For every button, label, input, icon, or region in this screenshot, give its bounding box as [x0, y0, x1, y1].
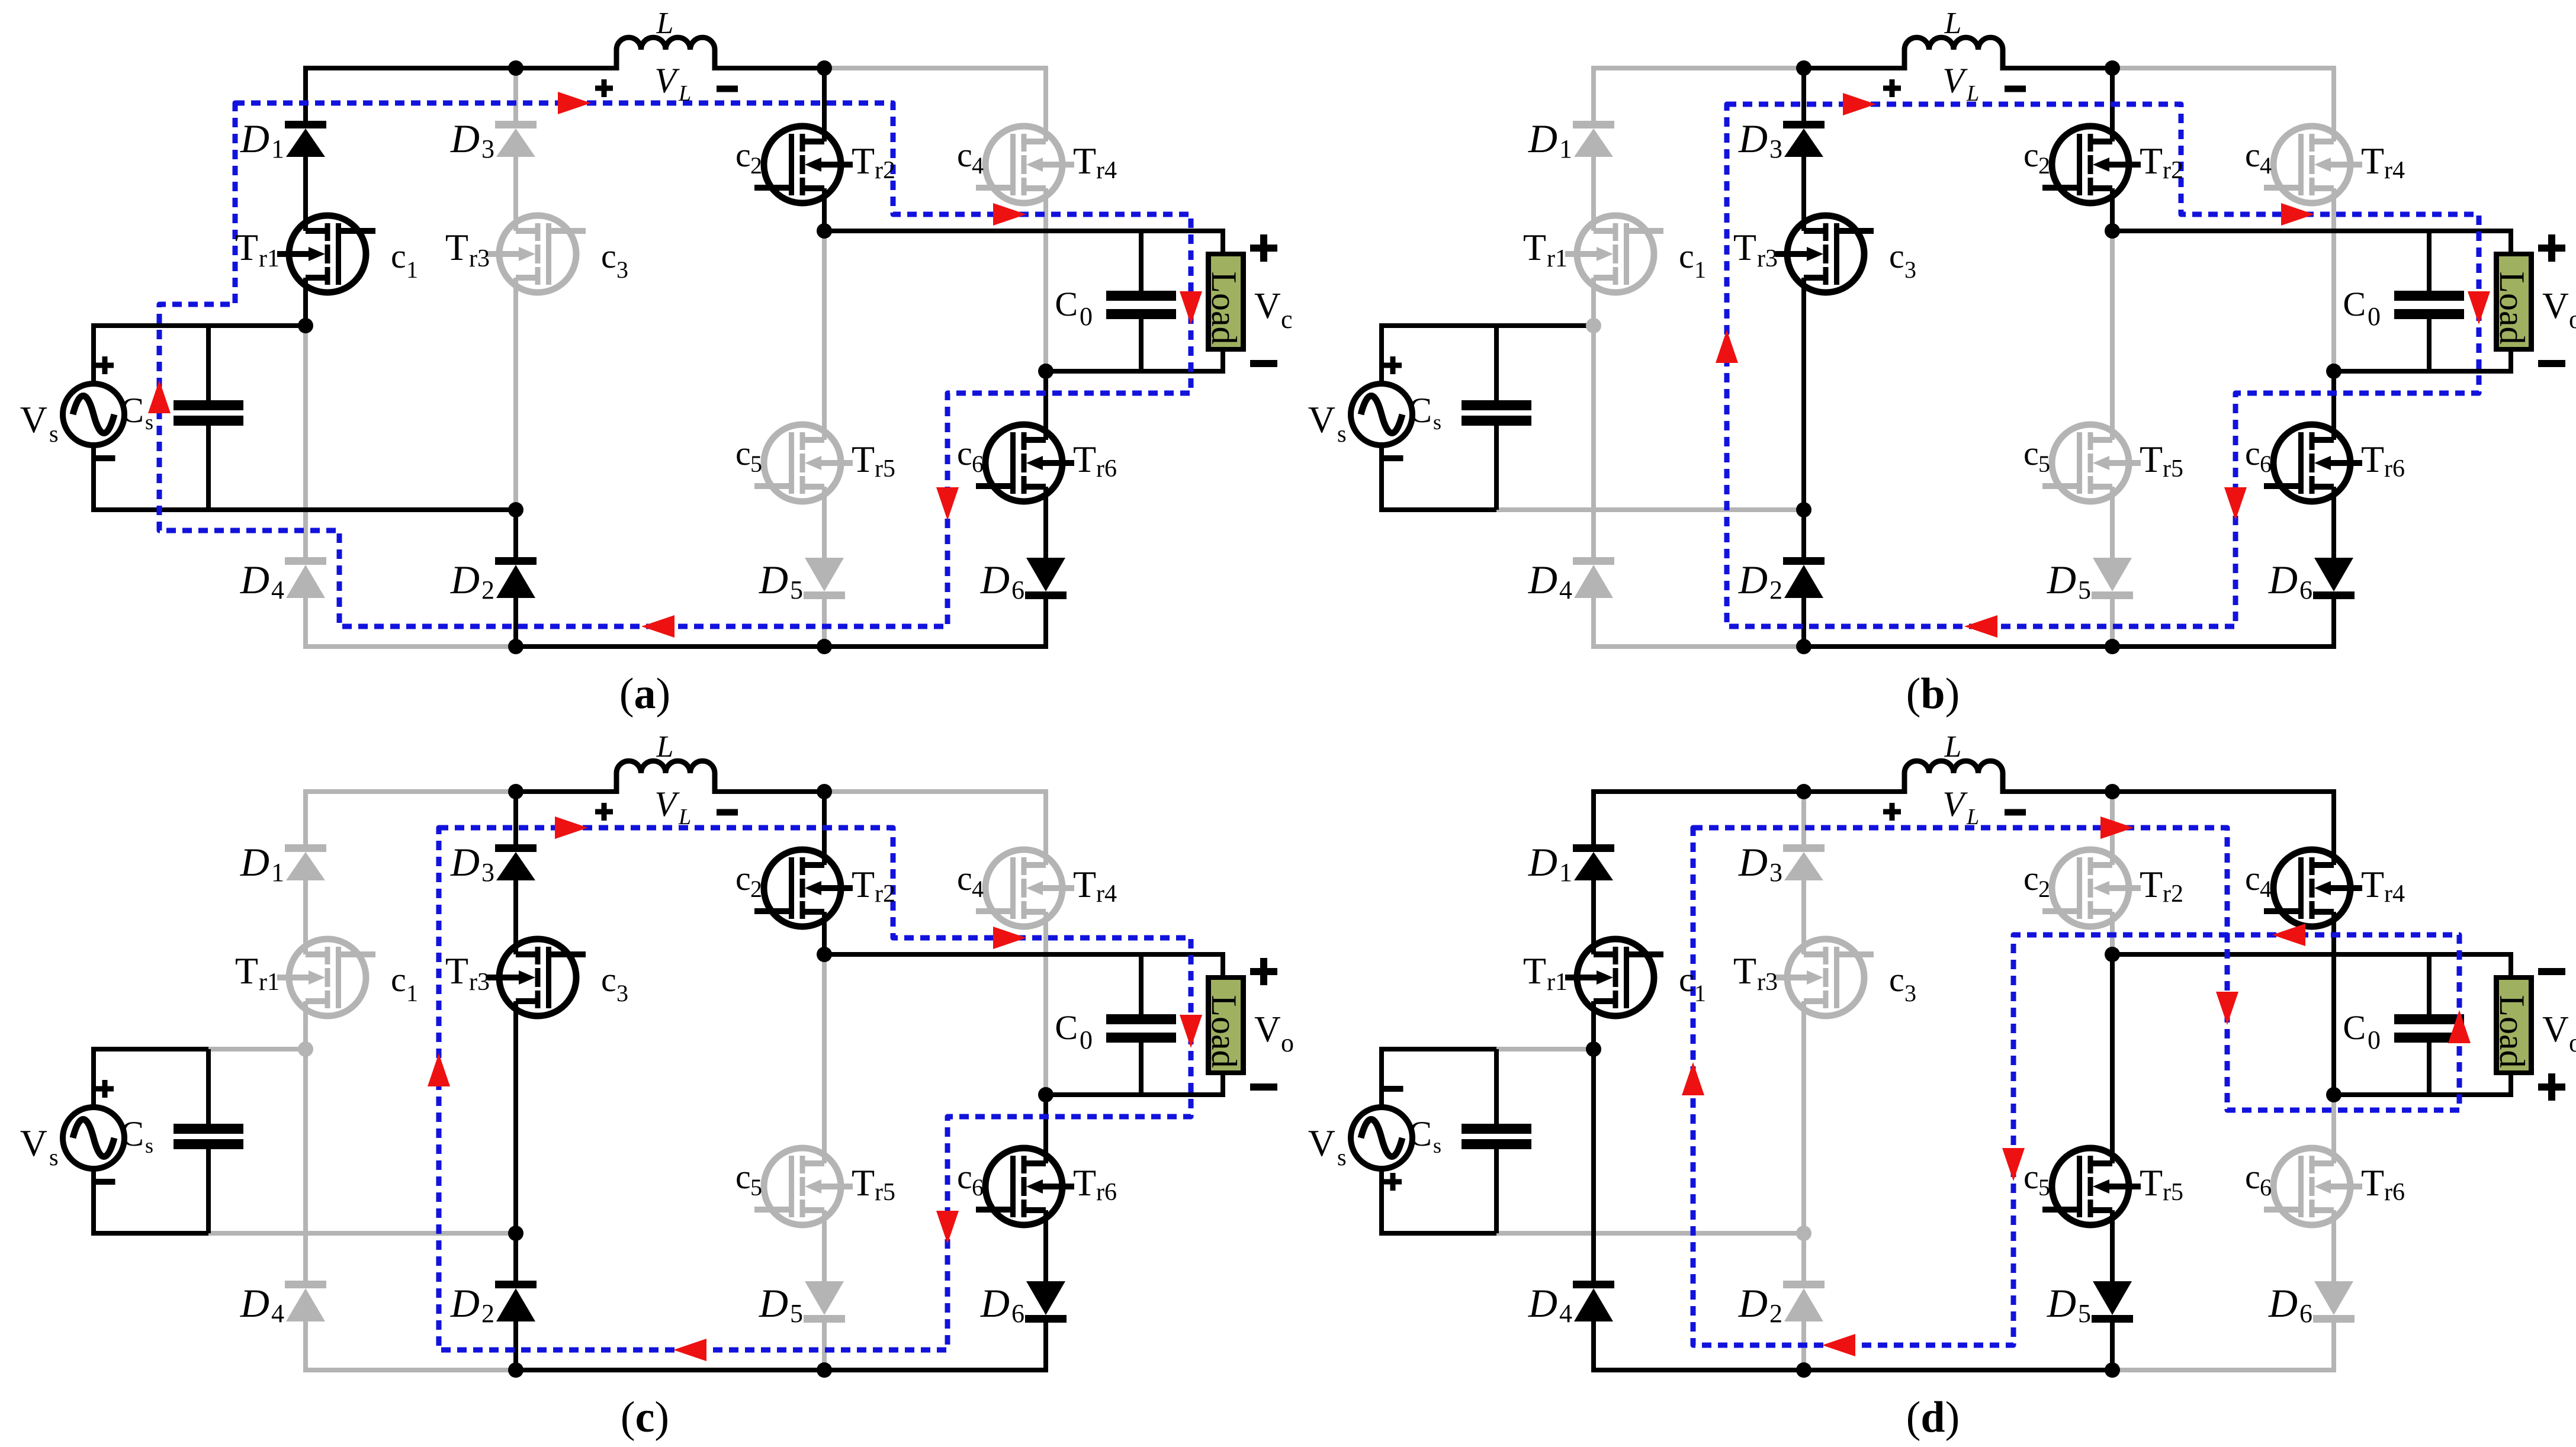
- svg-text:T: T: [2361, 140, 2384, 182]
- svg-text:c: c: [957, 434, 972, 472]
- svg-text:r6: r6: [1096, 1179, 1117, 1206]
- wire bottom left segment: [303, 1368, 516, 1372]
- svg-text:r5: r5: [875, 1179, 895, 1206]
- svg-text:c: c: [1889, 237, 1904, 275]
- diode D3: [495, 844, 537, 852]
- diode D4: [285, 1281, 326, 1288]
- wire node to Tr6: [2331, 371, 2336, 440]
- svg-text:T: T: [1073, 140, 1096, 182]
- wire D4 down: [303, 1321, 308, 1372]
- svg-text:s: s: [1433, 1134, 1441, 1157]
- svg-text:s: s: [49, 420, 59, 447]
- svg-text:V: V: [1254, 1009, 1281, 1050]
- wire load bottom: [2508, 1075, 2513, 1095]
- node Tr2-source: [817, 223, 832, 239]
- svg-text:T: T: [852, 1162, 875, 1204]
- wire Cs to D2 node: [1496, 507, 1804, 512]
- diode D5: [2093, 1281, 2132, 1315]
- svg-text:2: 2: [2038, 876, 2050, 902]
- svg-text:s: s: [145, 410, 153, 434]
- source Vs: [1351, 384, 1412, 445]
- svg-text:r6: r6: [2384, 455, 2405, 483]
- wire top rail C: [2112, 66, 2336, 70]
- node load-bottom: [1038, 364, 1053, 379]
- node bottom-2: [2105, 1362, 2120, 1378]
- wire load bottom: [1220, 352, 1225, 371]
- wire leg1 to D1: [303, 789, 308, 844]
- svg-text:5: 5: [2038, 1174, 2050, 1201]
- wire D1 to Tr1: [1591, 880, 1596, 954]
- wire leg1 to D1: [303, 66, 308, 121]
- svg-text:1: 1: [406, 256, 418, 283]
- wire Cs to D2 node: [208, 507, 516, 512]
- node A: [1796, 784, 1811, 799]
- svg-text:T: T: [2140, 863, 2163, 905]
- wire bottom rail right: [824, 1368, 1048, 1372]
- node bottom-1: [1796, 1362, 1811, 1378]
- wire top rail B: [516, 66, 616, 70]
- diode D2: [1783, 557, 1825, 565]
- current arrow: [641, 615, 674, 638]
- capacitor Cs: [206, 1049, 211, 1124]
- svg-text:4: 4: [972, 876, 984, 902]
- diode D3: [1783, 844, 1825, 852]
- node Vs-top: [298, 1041, 313, 1057]
- diode D2: [495, 557, 537, 565]
- wire node to D4: [1591, 1049, 1596, 1281]
- svg-text:c: c: [1679, 960, 1694, 999]
- svg-text:6: 6: [1011, 1299, 1024, 1328]
- diode D6: [1026, 558, 1065, 591]
- wire D5 down: [2110, 1320, 2115, 1370]
- load polarity minus: [2538, 968, 2565, 975]
- current arrow: [2281, 203, 2314, 226]
- svg-text:V: V: [1308, 398, 1335, 440]
- svg-text:V: V: [20, 1122, 47, 1164]
- svg-text:4: 4: [2260, 152, 2272, 179]
- load resistor: [2494, 252, 2534, 352]
- wire L to Tr2 node: [715, 789, 824, 794]
- wire node to D4: [303, 326, 308, 557]
- svg-text:L: L: [656, 730, 674, 764]
- wire node to Tr6: [2331, 1095, 2336, 1163]
- svg-text:c: c: [735, 434, 751, 472]
- wire bottom rail right: [824, 644, 1048, 649]
- current arrow: [1843, 93, 1876, 115]
- svg-text:r4: r4: [2384, 880, 2405, 908]
- wire L to Tr2 node: [2003, 66, 2112, 70]
- svg-text:c: c: [2023, 1157, 2039, 1196]
- wire D3 to Tr3: [513, 157, 518, 231]
- wire D5 down: [822, 597, 827, 647]
- svg-text:5: 5: [750, 1174, 762, 1201]
- node Vs-top: [1586, 318, 1601, 333]
- svg-text:Load: Load: [2493, 995, 2532, 1067]
- svg-text:c: c: [2245, 859, 2260, 898]
- load polarity plus: [1250, 245, 1277, 252]
- label VL plus: [1883, 809, 1901, 815]
- transistor Tr4: [2273, 850, 2350, 927]
- node bottom-1: [508, 1362, 523, 1378]
- diode D3: [495, 121, 537, 128]
- node Vs-bottom: [1796, 502, 1811, 517]
- transistor Tr1: [289, 939, 366, 1016]
- svg-text:6: 6: [2299, 1299, 2312, 1328]
- diode D2: [495, 1281, 537, 1288]
- wire node to D2: [513, 510, 518, 557]
- current arrow: [993, 927, 1026, 949]
- current arrow: [993, 203, 1026, 226]
- current arrow: [673, 1339, 706, 1361]
- wire D2 down: [513, 1321, 518, 1370]
- svg-text:4: 4: [1559, 1299, 1572, 1328]
- wire Tr1 to node: [1591, 1001, 1596, 1049]
- svg-text:c: c: [735, 859, 751, 898]
- current arrow: [2216, 992, 2238, 1025]
- wire Tr2 to node: [822, 188, 827, 231]
- svg-text:c: c: [1281, 305, 1293, 334]
- svg-text:D: D: [2047, 557, 2076, 602]
- svg-text:3: 3: [616, 980, 628, 1007]
- wire rail to Tr2: [2110, 792, 2115, 865]
- svg-text:r1: r1: [1547, 245, 1568, 272]
- svg-text:C: C: [2343, 285, 2366, 323]
- svg-text:3: 3: [1769, 134, 1782, 163]
- current arrow: [1964, 615, 1997, 638]
- wire D1 to Tr1: [303, 157, 308, 231]
- label VL minus: [717, 809, 738, 816]
- svg-text:D: D: [450, 116, 480, 161]
- wire Tr6 to D6: [2331, 487, 2336, 558]
- svg-text:D: D: [980, 1281, 1010, 1326]
- svg-text:r3: r3: [469, 245, 490, 272]
- load polarity plus: [1250, 968, 1277, 975]
- svg-text:c: c: [2245, 1157, 2260, 1196]
- wire rail to Tr2: [822, 68, 827, 142]
- wire D6 down: [1043, 1320, 1048, 1372]
- svg-text:1: 1: [1559, 134, 1572, 163]
- transistor Tr1: [1577, 216, 1654, 292]
- svg-text:D: D: [2047, 1281, 2076, 1326]
- svg-text:D: D: [980, 557, 1010, 602]
- transistor Tr6: [2273, 425, 2350, 501]
- node A: [508, 60, 523, 76]
- svg-text:T: T: [2361, 1162, 2384, 1204]
- svg-text:D: D: [759, 557, 788, 602]
- node B: [817, 784, 832, 799]
- wire L to Tr2 node: [715, 66, 824, 70]
- svg-text:r2: r2: [875, 157, 895, 184]
- current arrow: [555, 816, 588, 839]
- wire rail to Tr2: [2110, 68, 2115, 142]
- svg-text:1: 1: [1559, 858, 1572, 887]
- svg-text:D: D: [1528, 116, 1557, 161]
- load polarity minus: [1250, 360, 1277, 367]
- wire L to Tr2 node: [2003, 789, 2112, 794]
- svg-text:6: 6: [2260, 451, 2272, 477]
- svg-text:D: D: [450, 840, 480, 885]
- wire leg2 to D3: [1801, 792, 1806, 844]
- svg-text:4: 4: [1559, 575, 1572, 604]
- wire Tr2 node to load top: [2112, 229, 2513, 233]
- svg-text:Load: Load: [1205, 995, 1244, 1067]
- diode D5: [805, 1281, 844, 1315]
- node bottom-2: [817, 1362, 832, 1378]
- svg-text:2: 2: [1769, 575, 1782, 604]
- wire node to D4: [303, 1049, 308, 1281]
- svg-text:5: 5: [2078, 575, 2091, 604]
- svg-text:s: s: [49, 1144, 59, 1171]
- svg-text:r4: r4: [2384, 157, 2405, 184]
- svg-text:V: V: [2542, 286, 2569, 326]
- label VL plus: [595, 809, 613, 815]
- capacitor Cs: [1494, 326, 1499, 400]
- load resistor: [2494, 975, 2534, 1075]
- svg-text:5: 5: [790, 575, 803, 604]
- wire leg1 to D1: [1591, 789, 1596, 844]
- capacitor C0: [1139, 231, 1144, 291]
- svg-text:T: T: [1073, 438, 1096, 480]
- svg-text:D: D: [240, 116, 269, 161]
- svg-text:c: c: [735, 1157, 751, 1196]
- source polarity minus: [1383, 455, 1403, 461]
- wire bottom rail right: [2112, 644, 2336, 649]
- svg-text:c: c: [601, 237, 616, 275]
- svg-text:V: V: [654, 784, 680, 824]
- node bottom-2: [2105, 639, 2120, 654]
- svg-text:V: V: [20, 398, 47, 440]
- svg-text:T: T: [852, 863, 875, 905]
- capacitor C0: [2427, 231, 2432, 291]
- svg-text:T: T: [2361, 863, 2384, 905]
- svg-text:c: c: [601, 960, 616, 999]
- wire top rail C: [824, 789, 1048, 794]
- wire Tr3 to node: [513, 1001, 518, 1233]
- wire Tr4 to load-bottom node: [2331, 912, 2336, 1095]
- wire top rail A: [306, 789, 516, 794]
- transistor Tr6: [985, 425, 1062, 501]
- current arrow: [936, 1211, 959, 1244]
- svg-text:r6: r6: [2384, 1179, 2405, 1206]
- wire Vs leads: [91, 1047, 96, 1108]
- svg-text:3: 3: [481, 858, 494, 887]
- svg-text:o: o: [1281, 1028, 1294, 1057]
- svg-text:(b): (b): [1906, 670, 1960, 718]
- current arrow: [2224, 487, 2247, 520]
- svg-text:c: c: [2023, 136, 2039, 174]
- wire rail to Tr4: [2331, 68, 2336, 142]
- node Vs-top: [298, 318, 313, 333]
- wire Tr1 to node: [303, 278, 308, 326]
- wire bottom left segment: [1591, 644, 1804, 649]
- svg-text:C: C: [1408, 391, 1432, 430]
- node load-bottom: [2326, 364, 2341, 379]
- wire Tr4 to load-bottom node: [1043, 912, 1048, 1095]
- diode D1: [285, 844, 326, 852]
- svg-text:0: 0: [2368, 302, 2381, 331]
- label VL minus: [717, 86, 738, 92]
- wire Tr5 to D5: [2110, 487, 2115, 558]
- wire D6 down: [1043, 597, 1048, 649]
- wire Vs leads: [91, 323, 96, 385]
- svg-text:D: D: [1528, 557, 1557, 602]
- wire Cs to node: [208, 1047, 306, 1052]
- svg-text:4: 4: [271, 1299, 284, 1328]
- node load-bottom: [1038, 1087, 1053, 1102]
- wire node to D2: [1801, 510, 1806, 557]
- transistor Tr1: [1577, 939, 1654, 1016]
- transistor Tr4: [985, 850, 1062, 927]
- transistor Tr3: [499, 216, 576, 292]
- wire Cs to D2 node: [208, 1231, 516, 1236]
- svg-text:r1: r1: [259, 969, 280, 996]
- wire Tr5 to D5: [822, 1210, 827, 1281]
- svg-text:6: 6: [1011, 575, 1024, 604]
- node Tr2-source: [2105, 223, 2120, 239]
- svg-text:c: c: [391, 237, 406, 275]
- wire Cs to node: [1496, 1047, 1594, 1052]
- svg-text:r2: r2: [875, 880, 895, 908]
- svg-text:3: 3: [616, 256, 628, 283]
- svg-text:D: D: [759, 1281, 788, 1326]
- svg-text:5: 5: [790, 1299, 803, 1328]
- wire rail to Tr4: [1043, 68, 1048, 142]
- svg-text:6: 6: [2299, 575, 2312, 604]
- svg-text:T: T: [852, 140, 875, 182]
- node A: [1796, 60, 1811, 76]
- source Vs: [1351, 1107, 1412, 1169]
- svg-text:D: D: [240, 1281, 269, 1326]
- wire Tr2 to node: [2110, 912, 2115, 954]
- transistor Tr3: [1787, 939, 1864, 1016]
- current path (dashed): [1693, 828, 2459, 1345]
- inductor L: [1904, 761, 2003, 794]
- wire D3 to Tr3: [1801, 880, 1806, 954]
- wire leg2 to D3: [513, 68, 518, 121]
- svg-text:L: L: [1944, 730, 1962, 764]
- svg-text:2: 2: [750, 876, 762, 902]
- svg-text:2: 2: [2038, 152, 2050, 179]
- svg-text:4: 4: [271, 575, 284, 604]
- current arrow: [936, 487, 959, 520]
- wire Tr4 to load-bottom node: [1043, 188, 1048, 371]
- wire D4 down: [303, 598, 308, 649]
- svg-text:s: s: [145, 1134, 153, 1157]
- transistor Tr6: [985, 1148, 1062, 1225]
- load polarity plus: [2538, 245, 2565, 252]
- svg-text:r1: r1: [259, 245, 280, 272]
- current arrow: [2448, 1010, 2471, 1043]
- wire node to Tr5: [2110, 231, 2115, 440]
- svg-text:r2: r2: [2163, 157, 2183, 184]
- svg-text:T: T: [235, 226, 258, 268]
- diode D1: [1573, 121, 1614, 128]
- wire load bottom: [2508, 352, 2513, 371]
- svg-text:T: T: [2140, 1162, 2163, 1204]
- node B: [2105, 60, 2120, 76]
- wire D2 down: [513, 598, 518, 647]
- svg-text:c: c: [2023, 859, 2039, 898]
- svg-text:D: D: [1738, 557, 1768, 602]
- svg-text:1: 1: [1694, 980, 1706, 1007]
- svg-text:V: V: [1942, 784, 1968, 824]
- node bottom-1: [1796, 639, 1811, 654]
- wire D4 down: [1591, 598, 1596, 649]
- current path (dashed): [1727, 104, 2479, 626]
- current arrow: [1822, 1334, 1855, 1356]
- wire bottom rail: [516, 1368, 824, 1372]
- svg-text:V: V: [2542, 1009, 2569, 1050]
- wire Vs leads: [1379, 323, 1384, 385]
- label VL plus: [595, 86, 613, 91]
- wire top rail B: [516, 789, 616, 794]
- wire bottom rail: [516, 644, 824, 649]
- svg-text:1: 1: [271, 134, 284, 163]
- diode D3: [1783, 121, 1825, 128]
- wire bottom left segment: [1591, 1368, 1804, 1372]
- svg-text:0: 0: [1080, 1025, 1093, 1054]
- wire rail to Tr4: [2331, 792, 2336, 865]
- svg-text:c: c: [2023, 434, 2039, 472]
- svg-text:6: 6: [2260, 1174, 2272, 1201]
- transistor Tr2: [2052, 850, 2129, 927]
- wire top rail B: [1804, 66, 1904, 70]
- diode D4: [285, 557, 326, 565]
- svg-text:0: 0: [1080, 302, 1093, 331]
- svg-text:c: c: [735, 136, 751, 174]
- svg-text:T: T: [2140, 438, 2163, 480]
- diode D6: [2314, 558, 2353, 591]
- svg-text:L: L: [678, 805, 691, 829]
- wire D5 down: [2110, 597, 2115, 647]
- svg-text:V: V: [1942, 61, 1968, 100]
- wire bottom rail right: [2112, 1368, 2336, 1372]
- current arrow: [2100, 816, 2134, 839]
- svg-text:D: D: [1528, 840, 1557, 885]
- diode D5: [2093, 558, 2132, 591]
- current arrow: [2272, 924, 2305, 946]
- wire D1 to Tr1: [303, 880, 308, 954]
- current arrow: [1180, 1015, 1202, 1048]
- source polarity minus: [1383, 1086, 1403, 1092]
- svg-text:c: c: [2245, 434, 2260, 472]
- svg-text:1: 1: [406, 980, 418, 1007]
- source polarity plus: [96, 1086, 114, 1092]
- svg-text:o: o: [2569, 1028, 2576, 1057]
- svg-text:r5: r5: [2163, 455, 2183, 483]
- svg-text:c: c: [957, 1157, 972, 1196]
- svg-text:C: C: [1055, 285, 1078, 323]
- wire rail to Tr2: [822, 792, 827, 865]
- current path (dashed): [439, 828, 1191, 1350]
- wire top rail C: [2112, 789, 2336, 794]
- capacitor Cs: [206, 326, 211, 400]
- svg-text:T: T: [2140, 140, 2163, 182]
- wire Tr6 to D6: [1043, 487, 1048, 558]
- svg-text:D: D: [450, 1281, 480, 1326]
- svg-text:r4: r4: [1096, 157, 1117, 184]
- wire D2 down: [1801, 598, 1806, 647]
- svg-text:D: D: [1738, 840, 1768, 885]
- svg-text:L: L: [1966, 805, 1979, 829]
- svg-text:C: C: [1055, 1008, 1078, 1047]
- svg-text:D: D: [1738, 1281, 1768, 1326]
- transistor Tr5: [764, 1148, 841, 1225]
- svg-text:5: 5: [2038, 451, 2050, 477]
- source polarity minus: [95, 1179, 115, 1185]
- wire leg1 to D1: [1591, 66, 1596, 121]
- diode D6: [1026, 1281, 1065, 1315]
